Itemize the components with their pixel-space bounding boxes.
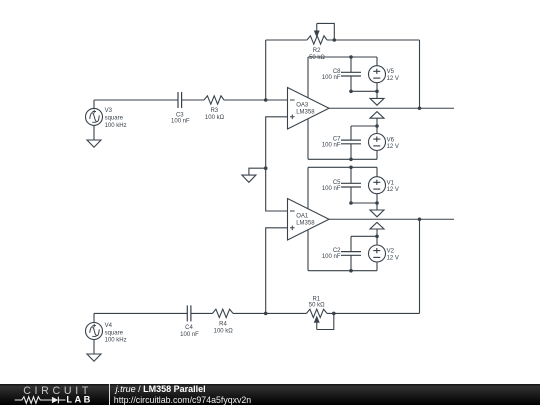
svg-text:100 nF: 100 nF [322, 143, 341, 149]
label R3 [205, 108, 225, 121]
resistor R4 [213, 309, 234, 317]
svg-text:C2: C2 [333, 248, 341, 254]
wire R4 to R1 [233, 312, 307, 314]
wire OA3 output [329, 107, 454, 109]
wire R2 wiper loop [317, 23, 335, 40]
svg-text:C8: C8 [333, 69, 341, 75]
svg-text:R4: R4 [219, 322, 227, 328]
label C2 [322, 248, 341, 260]
node C8 bottom [349, 90, 353, 94]
ground (flipped, above V2) [370, 222, 384, 236]
label V4 [105, 323, 127, 344]
wire R1 to right vertical [327, 312, 420, 314]
label C4 [180, 325, 199, 338]
svg-text:50 kΩ: 50 kΩ [309, 303, 325, 309]
node OA1 output feedback tap [418, 217, 422, 221]
svg-text:LM358: LM358 [296, 109, 315, 115]
svg-text:http://circuitlab.com/c974a5fy: http://circuitlab.com/c974a5fyqxv2n [114, 395, 252, 405]
label C3 [171, 113, 190, 125]
op-amp OA1 [288, 199, 330, 241]
node R2 wiper/right terminal [333, 38, 337, 42]
node V1 bottom [375, 201, 379, 205]
node C8 top [349, 55, 353, 59]
svg-text:LAB: LAB [66, 395, 92, 405]
label C8 [322, 69, 341, 81]
svg-text:100 nF: 100 nF [171, 119, 190, 125]
node C2 bottom [349, 269, 353, 273]
label C5 [322, 180, 341, 192]
node C7 bottom [349, 158, 353, 162]
ground (below V1) [370, 203, 384, 217]
potentiometer R1 [307, 309, 328, 329]
resistor R3 [204, 96, 224, 104]
wire right vertical feedback OA3 [419, 40, 421, 108]
svg-text:LM358: LM358 [296, 220, 315, 226]
wire OA1 V+ pin [307, 167, 309, 208]
svg-text:R3: R3 [210, 108, 218, 114]
wire R2 to right vertical [327, 39, 420, 41]
ground (below V4) [87, 354, 101, 361]
svg-text:100 kΩ: 100 kΩ [214, 328, 234, 334]
svg-text:50 kΩ: 50 kΩ [309, 55, 325, 61]
svg-text:100 kΩ: 100 kΩ [205, 115, 225, 121]
potentiometer R2 [307, 23, 327, 44]
wire top feedback to R2 [266, 39, 307, 41]
wire R3 to OA3 inverting input [224, 99, 288, 101]
wire to mid ground [249, 168, 266, 175]
svg-text:12 V: 12 V [387, 76, 399, 82]
svg-text:12 V: 12 V [387, 187, 399, 193]
ground (below V5) [370, 91, 384, 105]
node V2 top [375, 235, 379, 239]
label R4 [214, 322, 234, 335]
svg-text:100 kHz: 100 kHz [105, 123, 127, 129]
wire R1 wiper loop [317, 313, 334, 329]
wire OA1 non-inverting input [266, 228, 288, 314]
label R2 [309, 48, 325, 61]
svg-text:100 nF: 100 nF [322, 254, 341, 260]
label V3 [105, 108, 127, 129]
svg-text:V5: V5 [387, 69, 395, 75]
op-amp OA3 [288, 88, 330, 130]
footer divider [109, 384, 111, 405]
voltage source V4 [86, 313, 103, 354]
wire V2 top rail [351, 235, 377, 237]
wire OA1 V- pin [307, 230, 309, 271]
svg-text:V2: V2 [387, 249, 395, 255]
svg-text:100 nF: 100 nF [322, 186, 341, 192]
ground (below V3) [87, 140, 101, 147]
wire OA3 V+ pin [307, 57, 309, 98]
label OA1 [296, 214, 315, 227]
voltage source V6 [369, 126, 386, 159]
wire right vertical feedback OA1 [419, 219, 421, 313]
svg-text:12 V: 12 V [387, 255, 399, 261]
node C5 bottom [349, 201, 353, 205]
voltage source V2 [369, 236, 386, 270]
wire OA3 non-inverting input [266, 117, 288, 211]
svg-text:square: square [105, 330, 124, 336]
label V6 [387, 137, 399, 150]
wire OA3 V- rail [308, 158, 377, 160]
svg-text:square: square [105, 115, 124, 121]
logo diode [52, 397, 58, 404]
node at OA3 inverting input [264, 98, 268, 102]
voltage source V1 [369, 167, 386, 203]
wire C5/V1 bottom rail [351, 202, 377, 204]
svg-text:R2: R2 [313, 48, 321, 54]
svg-text:V1: V1 [387, 180, 395, 186]
wire C4 to R4 [191, 312, 213, 314]
label V2 [387, 249, 399, 262]
wire OA1 V- rail [308, 270, 377, 272]
capacitor C7 [341, 126, 361, 159]
ground (flipped, above V6) [370, 112, 384, 126]
capacitor C4 [187, 305, 191, 321]
node OA1 + input tap [264, 312, 268, 316]
wire C3 to R3 [182, 99, 204, 101]
wire OA3 V- pin [307, 119, 309, 160]
svg-text:j.true / LM358 Parallel: j.true / LM358 Parallel [115, 384, 206, 394]
svg-text:C7: C7 [333, 137, 341, 143]
wire V6 top rail [351, 125, 377, 127]
ground (mid, input bias) [242, 175, 256, 182]
svg-text:100 kHz: 100 kHz [105, 338, 127, 344]
wire V4 to C4 [94, 312, 187, 314]
wire C8/V5 bottom rail [351, 90, 377, 92]
label OA3 [296, 103, 315, 116]
node C5 top [349, 166, 353, 170]
node V5 bottom [375, 90, 379, 94]
svg-text:C4: C4 [185, 325, 193, 331]
svg-text:V6: V6 [387, 137, 395, 143]
wire OA1 V+ rail [308, 166, 377, 168]
capacitor C2 [341, 236, 361, 270]
capacitor C5 [341, 167, 361, 203]
svg-text:V3: V3 [105, 108, 113, 114]
svg-text:12 V: 12 V [387, 144, 399, 150]
wire V3 to C3 [94, 99, 178, 101]
node V6 top [375, 124, 379, 128]
wire OA1 output [329, 218, 454, 220]
svg-text:C5: C5 [333, 180, 341, 186]
footer bar [0, 384, 540, 405]
node OA3 output feedback tap [418, 106, 422, 110]
logo waveform resistor [15, 397, 52, 404]
svg-text:R1: R1 [312, 297, 320, 303]
svg-text:V4: V4 [105, 323, 113, 329]
wire OA3 V+ rail [308, 56, 377, 58]
capacitor C8 [341, 57, 361, 91]
svg-text:100 nF: 100 nF [180, 332, 199, 338]
label R1 [309, 297, 325, 309]
capacitor C3 [178, 92, 182, 108]
label C7 [322, 137, 341, 149]
node ground tap [264, 166, 268, 170]
label V5 [387, 69, 399, 82]
svg-text:OA3: OA3 [296, 103, 309, 109]
node R1 wiper/right terminal [332, 312, 336, 316]
voltage source V3 [86, 100, 103, 140]
svg-text:OA1: OA1 [296, 214, 309, 220]
svg-text:100 nF: 100 nF [322, 75, 341, 81]
label V1 [387, 180, 399, 193]
voltage source V5 [369, 57, 386, 91]
wire feedback vertical left (node to top) [265, 40, 267, 100]
